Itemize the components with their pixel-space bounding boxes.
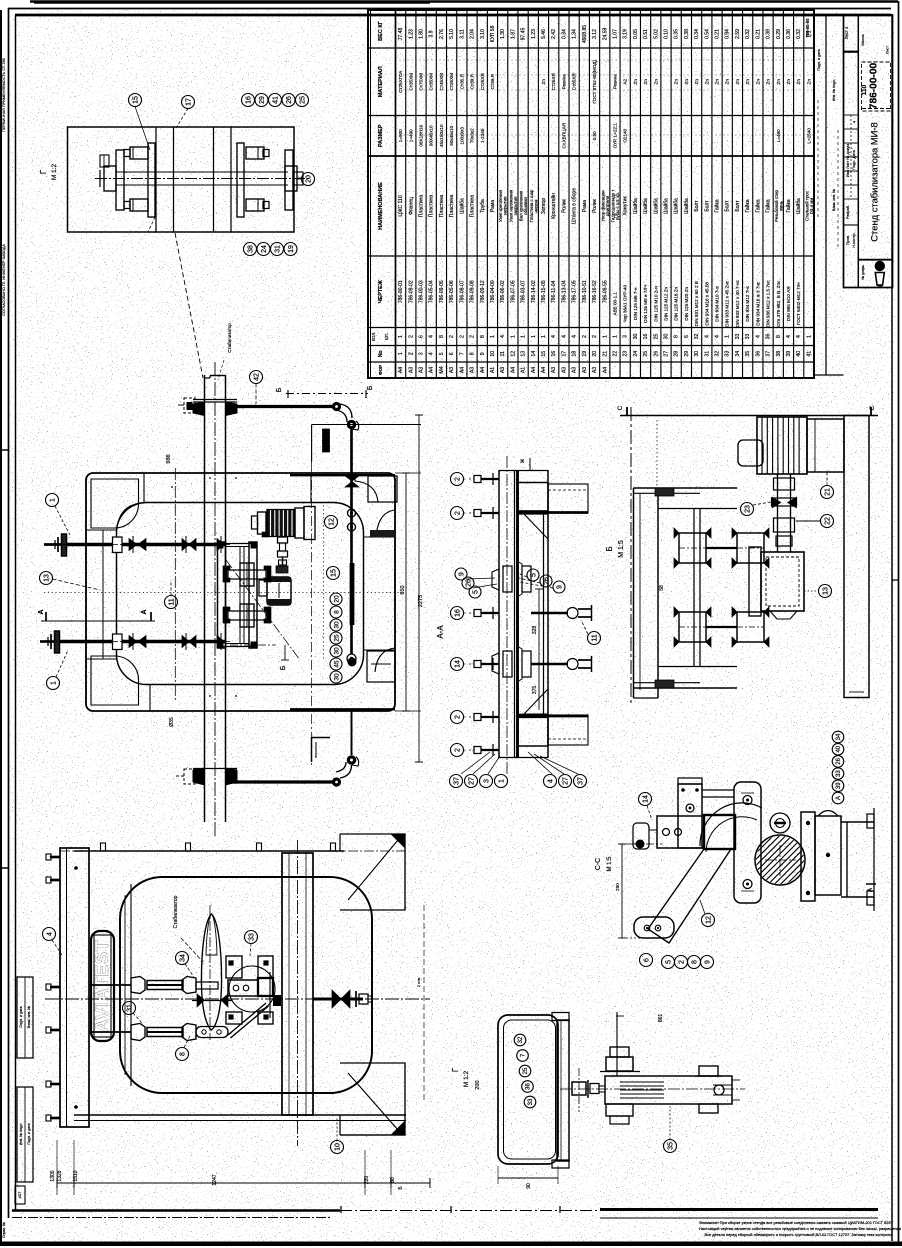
mast small bracket dashed top — [184, 398, 195, 413]
balloon 17 — [182, 96, 195, 109]
C-C upper bracket — [678, 784, 702, 848]
balloon 20 right — [302, 173, 315, 186]
sheet outer edge bottom thick — [0, 1242, 902, 1247]
svg-text:ПЕРВИЧНАЯ ПРИМЕНЯЕМОСТЬ СТ-786: ПЕРВИЧНАЯ ПРИМЕНЯЕМОСТЬ СТ-786 — [2, 58, 6, 132]
cross bolt assembly upper — [228, 570, 266, 579]
black wedge near frame corner — [323, 429, 330, 452]
rod 1 collar ticks — [132, 536, 134, 553]
dimension line 650 — [405, 473, 407, 711]
title block logo — [875, 261, 885, 271]
view direction dim dashed line B — [286, 393, 368, 395]
main frame left band joint line — [102, 530, 104, 659]
section A-A dim line 328 — [538, 589, 540, 710]
view Г arm body — [605, 1076, 732, 1104]
section A-A thick beam flange — [516, 470, 519, 758]
AVIATEST plate — [91, 931, 114, 1041]
parts table dotted leaders in material band — [396, 59, 815, 61]
balloon 23 view B — [741, 503, 754, 516]
motor body with fins — [267, 510, 295, 537]
sheet outer edge right — [898, 1, 900, 1246]
view B left rails — [633, 488, 635, 698]
section A-A cut trace line — [41, 620, 155, 622]
C-C crank arc — [700, 803, 762, 846]
side view right ext dash line — [423, 905, 425, 1100]
left margin strip upper — [17, 977, 33, 1058]
balloon 12 rotated near motor — [325, 516, 338, 529]
mast small bracket dashed bottom — [184, 769, 195, 784]
view G box outline — [68, 127, 295, 232]
balloon 22 view B — [821, 515, 834, 528]
dotted hub centerline horizontal — [44, 592, 403, 594]
view G left flange plate — [148, 143, 155, 217]
dash-dot vertical frame opening centerline — [174, 468, 176, 700]
main frame bottom edge dark segment — [290, 708, 395, 710]
rod 1 clamp collars — [129, 539, 137, 551]
view Г flange column — [557, 1020, 569, 1161]
section A-A beam right face — [543, 513, 545, 715]
side view racetrack frame — [120, 877, 372, 1093]
side view rod upper — [89, 984, 131, 986]
blade hub clamp bowties — [197, 994, 205, 1007]
side view rod lower — [89, 1031, 131, 1033]
view Г central bolt — [572, 1082, 586, 1095]
stamp column line 1 — [825, 15, 827, 375]
section A-A bearing housing upper — [492, 569, 499, 590]
top tie rod — [226, 405, 334, 408]
central bracket corner squares — [218, 543, 224, 549]
main frame top-left plate inner contour — [91, 479, 139, 528]
C-C axis dashes — [618, 843, 662, 845]
section A-A bottom block — [518, 716, 549, 747]
stabilizer blade — [201, 914, 221, 1030]
view B bottom cross band — [658, 666, 737, 668]
view Г arm bottom nut — [606, 1104, 633, 1116]
section A-A rail caps — [499, 470, 548, 472]
frame border inner thick top — [15, 14, 892, 17]
title block outer box — [844, 15, 893, 288]
view Г right bolt — [699, 1066, 718, 1076]
rod 2 bushing at inner wall — [113, 634, 123, 650]
view B wheel block top-left — [679, 533, 706, 563]
hub thick square — [258, 978, 273, 996]
view G horizontal centerline — [95, 178, 310, 180]
diagonal connecting rod — [228, 1003, 266, 1035]
top tie rod end joint — [332, 402, 341, 411]
C-C shaft between brackets — [702, 789, 734, 791]
main frame outer boundary — [86, 473, 395, 711]
view G right flange plate — [237, 143, 244, 217]
motor coupling shaft — [278, 537, 288, 543]
link bar bottom joint — [347, 654, 356, 663]
balloon 1 bottom left — [47, 677, 60, 690]
balloon 4 side view — [43, 928, 56, 941]
mast left edge — [204, 375, 206, 822]
view B top cross band — [634, 487, 738, 489]
mast top cap — [205, 377, 211, 379]
balloon cluster bottom C-C — [662, 956, 675, 969]
side view top-right foot — [340, 834, 405, 910]
hub bracket upper plates — [226, 956, 242, 978]
central bracket left plate — [218, 542, 226, 648]
C-C big plate with holes — [734, 782, 761, 903]
leader dashes from view G to mast — [175, 233, 203, 378]
side view inner plate line — [130, 884, 132, 1086]
C-C left arm — [657, 816, 704, 848]
main frame bottom-left plate inner contour — [91, 656, 139, 705]
C-C left pivot — [636, 840, 645, 849]
view B shaft couplings — [774, 478, 795, 490]
motor left cap — [258, 512, 267, 534]
link bar mid joints — [348, 509, 356, 517]
svg-text:СОГЛАСОВАНО ГЛ. ИНЖЕНЕР ЗАВОДА: СОГЛАСОВАНО ГЛ. ИНЖЕНЕР ЗАВОДА — [2, 244, 6, 316]
side view mast centerline — [297, 840, 299, 1146]
section A-A mounting plate — [498, 470, 500, 758]
parts table row separators and cell text — [398, 10, 814, 378]
section A-A bearing housing lower — [492, 653, 499, 674]
rod 2 collar ticks — [132, 633, 134, 650]
side view top edge — [74, 850, 344, 852]
main frame inner boundary — [117, 503, 364, 685]
side view mast column — [282, 853, 313, 1115]
balloon 21 view B — [821, 486, 834, 499]
balloon row bottom left A-A — [450, 775, 463, 788]
view B center bar — [693, 509, 695, 666]
view Г centerlines — [560, 1088, 745, 1090]
stamp column line 2 — [814, 374, 844, 376]
view B wheel row connecting shafts — [706, 547, 737, 549]
left margin corner box — [15, 1186, 25, 1204]
mast centerline — [214, 362, 216, 838]
view G left flange disc — [116, 150, 124, 210]
side view bottom-right foot — [340, 1063, 405, 1135]
motor foot dark mark — [262, 532, 268, 537]
motor right flange — [295, 508, 304, 538]
view G right top bolt — [246, 147, 264, 159]
view Г arm pivot top nut — [606, 1057, 633, 1071]
bottom lug bracket — [340, 765, 352, 778]
view Г balloon chain inside plate — [514, 1034, 526, 1046]
mast top flange — [193, 399, 237, 401]
sheet outer edge left — [0, 10, 2, 1246]
balloon 11 center — [165, 596, 178, 609]
view B cut line C-C vertical — [630, 407, 632, 706]
hub bracket lower plates — [226, 1012, 242, 1024]
side view dimension band — [57, 1182, 430, 1184]
dash-dot lower bolt centerline — [230, 644, 276, 646]
balloon 33 side view — [245, 931, 258, 944]
section A-A T handle upper — [531, 612, 568, 614]
parts table band line qty/no — [368, 345, 814, 347]
column pivot clamp marks — [273, 995, 281, 1006]
balloon 14 C-C — [639, 793, 652, 806]
view B gearbox — [761, 552, 804, 611]
left margin tick marks — [1, 449, 8, 451]
balloon cluster top right of view G — [242, 94, 255, 107]
balloon column rotated right C-C — [832, 731, 844, 743]
mast bottom flange — [193, 768, 205, 785]
bottom tie rod — [226, 780, 334, 783]
C-C right U bracket — [841, 821, 874, 823]
balloon 42 — [250, 371, 263, 384]
balloon cluster 5 26 9 right — [527, 569, 539, 581]
mast right edge — [225, 375, 227, 822]
balloon 31 side view — [123, 1002, 136, 1015]
main frame bottom-right corner details — [375, 648, 395, 672]
side view lower link bar — [196, 1027, 228, 1038]
drawing border left — [15, 15, 17, 1210]
view G vertical band lines — [155, 127, 157, 232]
view G left bottom bolt — [130, 199, 148, 211]
parts table band line dimension/description — [368, 155, 814, 157]
hub bracket corner bolts — [228, 960, 233, 965]
section A-A T handle lower — [531, 663, 568, 665]
view B extension dotted — [656, 420, 658, 488]
coupling clamp dark — [276, 566, 288, 573]
view G left hub — [104, 166, 116, 191]
C-C diagonal arm — [648, 849, 731, 943]
view Г big plate — [498, 1015, 558, 1164]
side view horizontal centerline — [45, 998, 430, 1000]
dash-dot section cut vertical — [311, 462, 313, 768]
left margin strip lower — [17, 1087, 33, 1182]
balloon cluster below view G — [244, 243, 257, 256]
balloons left column A-A — [451, 473, 464, 486]
central bracket top ties — [217, 543, 257, 545]
view B wheel block bottom-right — [737, 612, 764, 642]
rod 2 shaft — [55, 640, 226, 644]
cross bolt assembly lower — [228, 611, 266, 620]
svg-text:Справ. №: Справ. № — [2, 1222, 6, 1238]
view Г arm right end — [714, 1085, 724, 1095]
section A-A rail centerlines — [506, 456, 508, 775]
section A-A bottom foot plate — [548, 715, 588, 745]
main frame top-left corner plate — [117, 503, 144, 529]
main frame small tick marks top band — [209, 477, 211, 479]
view B top line with C section marks — [620, 415, 878, 417]
central bracket right plate — [249, 542, 257, 648]
balloon 15 — [129, 94, 142, 107]
view G right flange disc — [285, 150, 293, 210]
link bar right inside frame — [350, 429, 353, 654]
balloon row bottom right A-A — [544, 775, 557, 788]
C-C thick square block — [704, 815, 735, 849]
balloon cluster 9 26 5 upper-left — [455, 568, 467, 580]
parts table band line weight/material — [368, 47, 814, 49]
side view bottom edge lines — [74, 1114, 406, 1116]
balloon chain rotated right side — [330, 593, 342, 605]
section A-A bolts left — [481, 478, 499, 480]
title block divider vertical — [857, 15, 859, 288]
view B wheel block bottom-left — [679, 612, 706, 642]
section A-A top foot plate — [548, 484, 588, 513]
view Г top extension line — [616, 1012, 618, 1076]
link bar thick middle segment — [350, 563, 355, 625]
balloon 13 left — [40, 572, 53, 585]
dash-dot centerline rods horizontal — [44, 544, 230, 546]
extension dashed lines right — [312, 424, 421, 426]
view Г dim 90 — [498, 1177, 558, 1179]
link bar lower segment — [351, 711, 353, 755]
view B motor right cap — [807, 419, 844, 472]
section A-A top block — [518, 483, 549, 514]
hub bracket circle — [229, 966, 275, 1012]
sheet outer edge top — [30, 0, 898, 2]
dash-dot diagonal in frame — [226, 560, 300, 660]
side view top studs — [101, 843, 106, 851]
view G right hub with stud — [285, 166, 297, 191]
view G left top bolt — [130, 147, 148, 159]
balloon 15 rotated inside frame — [327, 567, 340, 580]
rod 1 bushing at inner wall — [113, 537, 123, 553]
C-C top shaft circle — [770, 813, 790, 833]
rod 2 T-end flange — [55, 631, 60, 653]
C-C dim 26 — [621, 844, 623, 938]
parts table header strip divider — [395, 10, 397, 378]
parts table outer frame — [368, 10, 814, 378]
view G right bottom bolt — [246, 199, 264, 211]
bottom tie rod end joint — [332, 777, 341, 786]
view B tall bar right — [844, 416, 869, 698]
link bar joint blob at frame top — [345, 476, 359, 481]
view B motor left bracket — [738, 440, 763, 466]
balloon 13 view B — [819, 585, 832, 598]
C-C arm end lug — [634, 917, 674, 938]
balloon 1 top left — [46, 494, 59, 507]
view B wheel block top-right — [737, 533, 764, 563]
rod 1 T-end flange — [62, 534, 67, 556]
bottom L bracket to frame — [311, 737, 313, 762]
side view studs left — [50, 856, 60, 859]
top right lug bracket — [340, 404, 352, 418]
main frame joint lines — [143, 473, 145, 503]
drawing baseline bottom-right — [600, 1208, 878, 1211]
rod 2 clamp collars — [129, 636, 137, 648]
dashed box around drawing number — [862, 62, 891, 111]
title block middle column lines — [862, 108, 892, 110]
parts table band line no/size — [368, 361, 814, 363]
motor mounting plate — [304, 507, 315, 540]
parts table band line part/qty — [368, 327, 814, 329]
balloon 10 side view — [331, 1141, 344, 1154]
link bar bottom joint blob — [348, 658, 357, 667]
view B motor body — [757, 417, 807, 474]
central bracket inner verticals — [239, 546, 241, 644]
balloon 12 C-C — [702, 914, 715, 927]
drawing baseline middle dash-dot — [340, 1210, 600, 1212]
title block stamp rows left strip — [844, 51, 859, 53]
view B motor shaft down — [777, 474, 779, 552]
balloon 8 side view — [176, 1048, 189, 1061]
balloon 35 view Г — [664, 1140, 677, 1153]
C-C right plate — [801, 812, 815, 901]
side view left mounting plate — [60, 848, 89, 1127]
drawing border bottom — [12, 1217, 330, 1219]
gearbox body — [267, 577, 291, 605]
parts table band line material/dimension — [368, 115, 814, 117]
C-C hatched disc — [755, 835, 805, 885]
hub horn bar — [228, 980, 258, 996]
balloon 11 A-A — [588, 632, 601, 645]
dimension line 2275 — [418, 415, 420, 762]
balloon 6 C-C bottom — [640, 954, 653, 967]
drawing border right — [891, 15, 893, 1241]
right shaft with handwheel — [313, 998, 363, 1001]
main frame small tick marks bottom band — [209, 695, 211, 697]
view G shaft lines — [116, 171, 288, 173]
rod 1 shaft — [62, 543, 226, 547]
drawing baseline bottom-left — [12, 1209, 340, 1211]
central bracket bottom ties — [217, 646, 257, 648]
parts table band line description/part — [368, 255, 814, 257]
balloon 34 side view — [176, 952, 189, 965]
dotted balloon leader vertical — [323, 505, 325, 660]
main frame top-right corner details — [355, 473, 378, 502]
C-C right motor body — [815, 816, 841, 895]
frame border outer — [8, 8, 891, 10]
